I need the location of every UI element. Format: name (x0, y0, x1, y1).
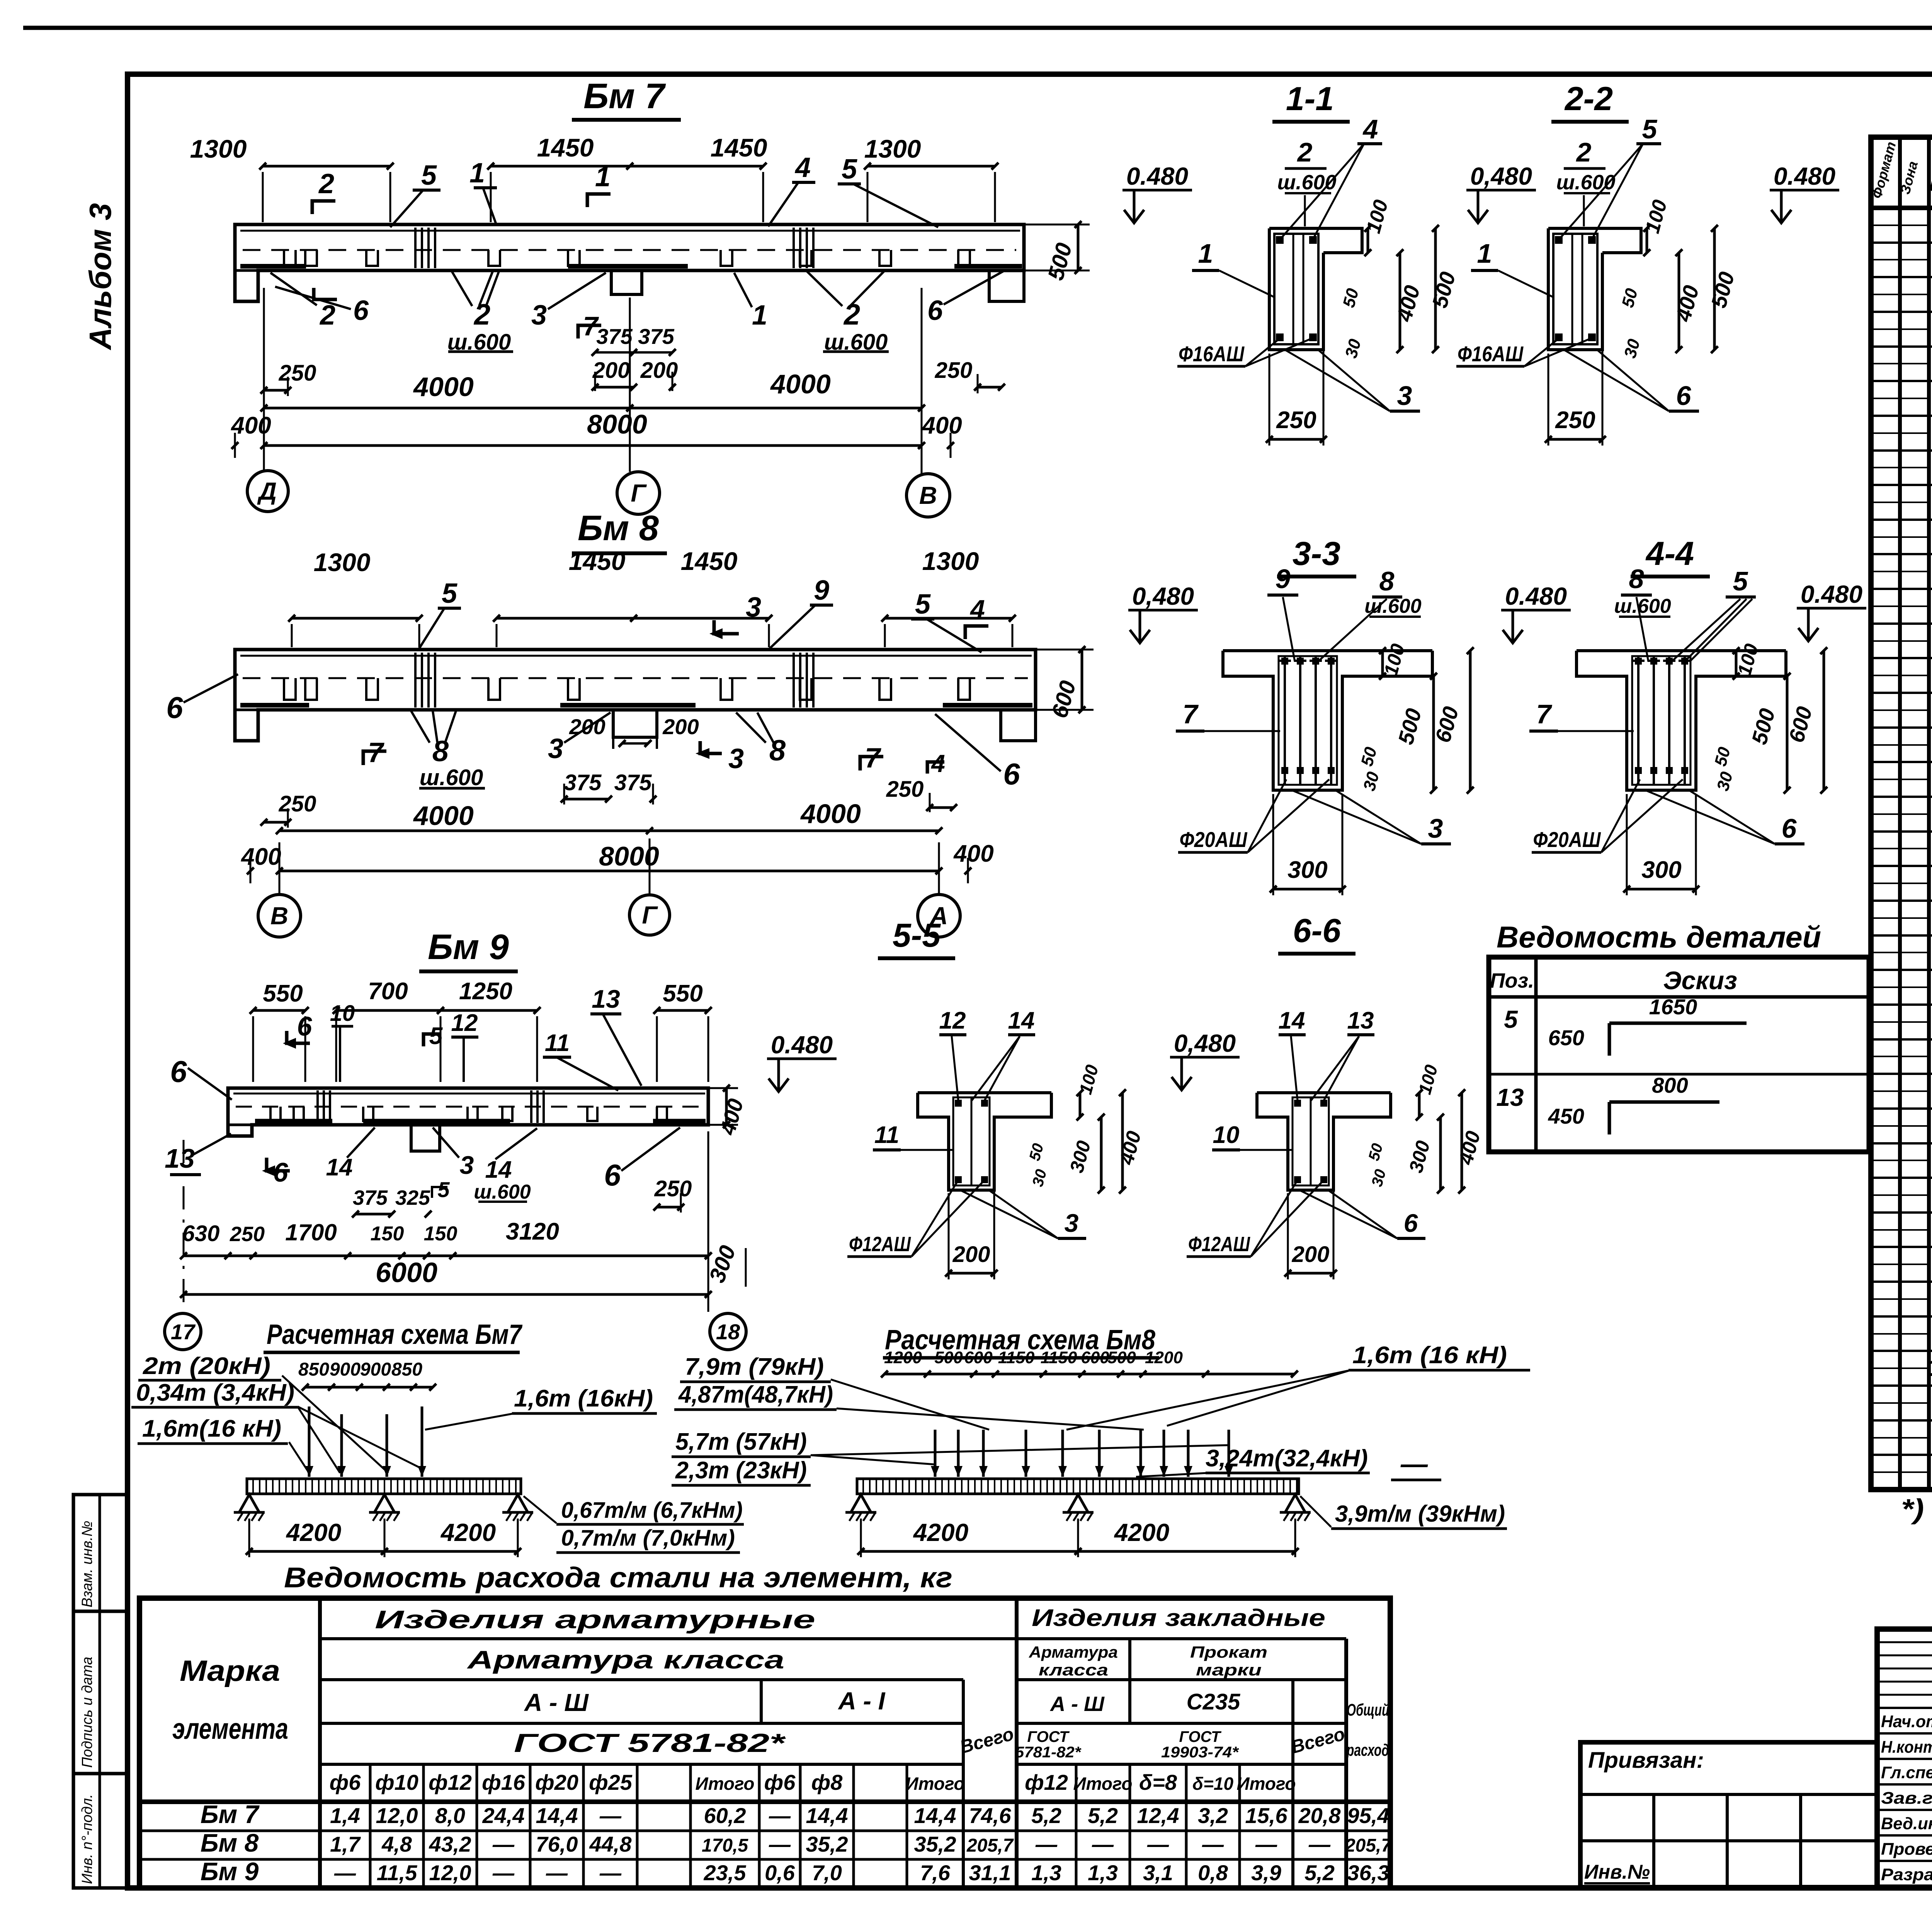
svg-text:—: — (769, 1832, 791, 1856)
svg-text:1,6т(16 кН): 1,6т(16 кН) (142, 1415, 281, 1442)
beam Bm7 mid support drop (611, 270, 642, 294)
svg-text:Бм 7: Бм 7 (201, 1800, 260, 1828)
grid bubble 18 (710, 1313, 746, 1350)
svg-text:3: 3 (746, 592, 761, 623)
svg-text:2-2: 2-2 (1564, 80, 1613, 117)
svg-text:Итого: Итого (696, 1774, 755, 1794)
svg-text:0,6: 0,6 (765, 1861, 795, 1885)
svg-text:11,5: 11,5 (377, 1861, 418, 1885)
svg-text:5,2: 5,2 (1031, 1803, 1061, 1828)
svg-text:1450: 1450 (537, 133, 594, 162)
svg-text:5: 5 (842, 154, 857, 185)
section 1-1 rebar dots (1276, 236, 1284, 244)
beam Bm7 outline (235, 224, 1024, 301)
svg-text:ф8: ф8 (811, 1770, 843, 1794)
svg-text:600: 600 (964, 1348, 993, 1367)
svg-text:Н.контр.: Н.контр. (1881, 1738, 1932, 1757)
svg-text:δ=8: δ=8 (1139, 1770, 1177, 1794)
section 3-3 vertical bars (1284, 657, 1286, 785)
svg-text:ф12: ф12 (1025, 1770, 1068, 1794)
svg-text:3: 3 (1397, 381, 1412, 411)
beam Bm9 cage lines (316, 1090, 319, 1123)
svg-text:13: 13 (165, 1143, 195, 1173)
svg-text:12: 12 (939, 1007, 966, 1034)
svg-text:250: 250 (654, 1176, 692, 1201)
svg-text:6: 6 (1003, 757, 1020, 791)
svg-text:ш.600: ш.600 (1556, 171, 1615, 194)
svg-text:2,3т (23кН): 2,3т (23кН) (675, 1457, 807, 1484)
svg-text:300: 300 (1287, 857, 1327, 883)
svg-text:170,5: 170,5 (702, 1835, 748, 1856)
svg-text:10: 10 (1213, 1122, 1240, 1148)
svg-text:—: — (1202, 1832, 1224, 1856)
svg-text:Бм 9: Бм 9 (201, 1857, 259, 1886)
svg-text:1250: 1250 (459, 978, 512, 1005)
svg-text:0.480: 0.480 (1774, 162, 1835, 190)
svg-text:18: 18 (716, 1320, 740, 1344)
svg-text:ГОСТ: ГОСТ (1027, 1728, 1070, 1745)
svg-text:1700: 1700 (285, 1219, 337, 1245)
beam Bm8 bottom rebar bars (240, 703, 309, 707)
svg-text:Итого: Итого (906, 1774, 965, 1794)
svg-text:11: 11 (545, 1030, 570, 1056)
svg-text:ш.600: ш.600 (1614, 595, 1671, 617)
svg-text:ГОСТ 5781-82*: ГОСТ 5781-82* (514, 1728, 786, 1758)
beam Bm8 outline (235, 650, 1036, 741)
svg-text:7: 7 (1536, 699, 1553, 729)
section 3-3 bottom dim 300 (1273, 888, 1342, 891)
svg-text:Ф20АШ: Ф20АШ (1533, 827, 1601, 852)
svg-text:1: 1 (752, 300, 767, 331)
svg-text:1200: 1200 (884, 1348, 922, 1367)
svg-text:3: 3 (460, 1151, 474, 1179)
svg-text:ф6: ф6 (764, 1770, 796, 1794)
Bm8 right depth dim 600 (1081, 650, 1083, 710)
svg-text:36,3: 36,3 (1347, 1861, 1389, 1885)
svg-text:Подпись и дата: Подпись и дата (79, 1657, 95, 1768)
svg-text:Изделия арматурные: Изделия арматурные (375, 1605, 815, 1634)
svg-text:Общий: Общий (1347, 1701, 1389, 1719)
svg-text:23,5: 23,5 (704, 1861, 747, 1885)
svg-text:12: 12 (451, 1010, 478, 1036)
svg-text:Зав.гр.: Зав.гр. (1881, 1789, 1932, 1808)
svg-text:δ=10: δ=10 (1192, 1774, 1234, 1794)
svg-text:В: В (270, 902, 288, 930)
svg-text:0.480: 0.480 (1505, 582, 1567, 610)
svg-text:3,9т/м (39кНм): 3,9т/м (39кНм) (1335, 1501, 1505, 1527)
svg-text:5: 5 (421, 160, 437, 191)
svg-text:Ф16АШ: Ф16АШ (1458, 342, 1524, 366)
svg-text:2: 2 (1576, 137, 1592, 167)
beam Bm7 right end step (989, 270, 1024, 301)
Bm8 dim line 4000 4000 (279, 830, 939, 832)
steel table structure lines (318, 1598, 322, 1888)
svg-text:150: 150 (424, 1223, 457, 1245)
left stamp column boxes (73, 1495, 128, 1888)
section 4-4 bottom bar dots (1635, 767, 1642, 774)
svg-text:—: — (492, 1861, 515, 1885)
svg-text:700: 700 (368, 978, 408, 1005)
beam Bm7 stirrup marks (284, 250, 296, 266)
svg-text:4200: 4200 (286, 1519, 341, 1546)
svg-text:ш.600: ш.600 (1364, 595, 1422, 617)
svg-text:850: 850 (298, 1359, 329, 1380)
svg-text:400: 400 (921, 412, 962, 439)
section 5-5 bottom dim 200 (949, 1272, 994, 1275)
svg-text:0,480: 0,480 (1470, 162, 1532, 190)
scheme Bm7 leaders left (282, 1376, 388, 1473)
svg-text:2т (20кН): 2т (20кН) (143, 1353, 270, 1379)
svg-text:*) Позиции 5;13 см. ведомость: *) Позиции 5;13 см. ведомость деталей. (1901, 1494, 1932, 1525)
svg-text:В: В (919, 481, 937, 509)
beam Bm8 dashed axis line (243, 677, 1028, 679)
svg-text:4200: 4200 (440, 1519, 496, 1546)
svg-text:200: 200 (952, 1242, 990, 1267)
svg-text:7: 7 (1183, 699, 1199, 729)
svg-text:1: 1 (1198, 238, 1213, 269)
svg-text:—: — (1400, 1449, 1428, 1479)
svg-text:1,3: 1,3 (1088, 1861, 1118, 1885)
svg-text:4200: 4200 (913, 1519, 968, 1546)
svg-text:класса: класса (1039, 1661, 1108, 1679)
grid bubble 17 (165, 1313, 201, 1350)
section 3-3 bottom bar dots (1281, 767, 1288, 774)
svg-text:0,67т/м (6,7кНм): 0,67т/м (6,7кНм) (561, 1498, 743, 1523)
svg-text:3: 3 (728, 743, 744, 774)
top rule (23, 26, 1932, 30)
section 1-1 inner bars (1293, 234, 1294, 344)
section 4-4 bottom dim 300 (1627, 888, 1696, 891)
section 2-2 stirrup (1553, 234, 1597, 344)
svg-text:Ф12АШ: Ф12АШ (849, 1233, 911, 1256)
beam Bm8 top dimension 1450+1450 (497, 617, 769, 620)
steel table frame (139, 1598, 1390, 1888)
beam Bm8 right end step (1001, 710, 1036, 741)
Bm7 dim line 4000 4000 (264, 407, 922, 410)
section 5-5 concrete outline (918, 1091, 1051, 1094)
svg-text:5-5: 5-5 (893, 917, 941, 954)
grid bubble A Bm8 (918, 895, 960, 937)
svg-text:12,0: 12,0 (429, 1861, 471, 1885)
svg-text:6: 6 (170, 1054, 187, 1088)
svg-text:6: 6 (1782, 813, 1797, 844)
section 6-6 stirrup (1293, 1097, 1329, 1185)
svg-text:10: 10 (330, 1001, 355, 1026)
svg-text:марки: марки (1196, 1661, 1262, 1679)
svg-text:400: 400 (953, 840, 993, 867)
svg-text:76,0: 76,0 (536, 1832, 578, 1856)
svg-text:1,6т (16 кН): 1,6т (16 кН) (1352, 1342, 1507, 1369)
svg-text:1200: 1200 (1145, 1348, 1183, 1367)
svg-text:расход: расход (1346, 1741, 1389, 1760)
svg-text:4000: 4000 (770, 369, 831, 399)
detail list table frame (1489, 957, 1869, 1152)
title block signature grid (1877, 1641, 1932, 1643)
svg-text:—: — (1147, 1832, 1169, 1856)
svg-text:А - Ш: А - Ш (524, 1689, 589, 1716)
svg-text:250: 250 (1276, 407, 1316, 434)
svg-text:630: 630 (182, 1221, 220, 1246)
svg-text:1300: 1300 (314, 548, 371, 577)
spec table frame (1871, 137, 1932, 1490)
svg-text:А - I: А - I (838, 1687, 886, 1715)
svg-text:9: 9 (814, 575, 829, 606)
svg-text:Арматура: Арматура (1029, 1643, 1118, 1661)
svg-text:375: 375 (353, 1186, 388, 1209)
svg-text:Ведомость расхода стали: Ведомость расхода стали на элемент, кг (284, 1561, 952, 1594)
svg-text:ш.600: ш.600 (420, 765, 483, 790)
svg-text:35,2: 35,2 (914, 1832, 956, 1856)
svg-text:А - Ш: А - Ш (1049, 1692, 1105, 1716)
Bm9 axis dash lines to bubbles (183, 1140, 185, 1312)
beam Bm8 slab inner line (240, 655, 1032, 657)
svg-text:1,4: 1,4 (330, 1803, 360, 1828)
beam Bm9 bottom rebar bars (255, 1119, 332, 1123)
svg-text:13*: 13* (1927, 1354, 1932, 1381)
svg-text:1,3: 1,3 (1031, 1861, 1061, 1885)
svg-text:ш.600: ш.600 (1277, 171, 1336, 194)
svg-text:850: 850 (391, 1359, 422, 1380)
svg-text:375: 375 (638, 324, 674, 349)
svg-text:14: 14 (1008, 1007, 1035, 1034)
svg-text:Арматура класса: Арматура класса (466, 1645, 784, 1674)
svg-text:1150: 1150 (998, 1348, 1035, 1367)
section 6-6 right dims (1418, 1093, 1421, 1117)
section 5-5 right dims (1079, 1093, 1082, 1117)
scheme Bm7 supports (239, 1495, 259, 1512)
scheme Bm8 bottom dims 4200 4200 (861, 1550, 1295, 1553)
svg-text:3: 3 (548, 733, 563, 764)
svg-text:Поз.: Поз. (1490, 969, 1534, 992)
section 3-3 concrete outline (1223, 649, 1432, 652)
beam Bm7 top dimension 1450+1450 (491, 165, 763, 168)
svg-text:12,0: 12,0 (376, 1803, 418, 1828)
beam Bm7 bottom rebar bars (240, 264, 306, 269)
svg-text:3120: 3120 (506, 1218, 559, 1245)
Bm7 axis extension lines (263, 288, 265, 471)
svg-text:1650: 1650 (1649, 995, 1697, 1019)
svg-text:205,7: 205,7 (1345, 1835, 1392, 1856)
section 1-1 stirrup (1274, 234, 1318, 344)
svg-text:1300: 1300 (922, 547, 979, 575)
svg-text:ГОСТ: ГОСТ (1179, 1728, 1222, 1745)
svg-text:500: 500 (934, 1348, 963, 1367)
beam Bm7 dashed axis line (243, 249, 1016, 251)
section 4-4 right dims (1735, 651, 1738, 676)
beam Bm7 rebar cage group left (414, 228, 417, 268)
svg-text:7,0: 7,0 (812, 1861, 842, 1885)
Bm8 dim line 8000 (279, 870, 939, 872)
svg-text:ф10: ф10 (375, 1770, 418, 1794)
beam Bm9 dashed axis line (236, 1106, 702, 1108)
svg-text:1: 1 (595, 162, 611, 192)
svg-text:5: 5 (915, 589, 931, 620)
svg-text:1300: 1300 (190, 134, 247, 163)
svg-text:Инв.№: Инв.№ (1584, 1861, 1650, 1883)
beam Bm8 top dimension 1300 left (292, 617, 419, 620)
svg-text:Вед.инж: Вед.инж (1881, 1814, 1932, 1833)
svg-text:31,1: 31,1 (969, 1861, 1011, 1885)
svg-text:ф16: ф16 (482, 1770, 526, 1794)
beam Bm9 slab inner line (233, 1093, 705, 1095)
section mark 2 left below (314, 288, 337, 299)
svg-text:6: 6 (1676, 381, 1692, 411)
svg-text:900: 900 (360, 1359, 391, 1380)
svg-text:0.480: 0.480 (771, 1031, 833, 1059)
svg-text:900: 900 (330, 1359, 361, 1380)
svg-text:—: — (1255, 1832, 1277, 1856)
svg-text:1300: 1300 (864, 134, 921, 163)
svg-text:8000: 8000 (587, 409, 647, 439)
svg-text:14: 14 (485, 1156, 512, 1183)
svg-text:95,4: 95,4 (1347, 1803, 1389, 1828)
section 3-3 right dims (1381, 651, 1384, 676)
svg-text:200: 200 (592, 358, 630, 383)
grid bubble V (906, 474, 950, 517)
svg-text:элемента: элемента (172, 1713, 288, 1745)
Bm7 right depth dim 500 (1077, 224, 1080, 270)
Bm9 top dims 550 700 1250 550 (253, 1009, 305, 1012)
svg-text:ф20: ф20 (535, 1770, 578, 1794)
svg-text:Прокат: Прокат (1190, 1643, 1267, 1661)
svg-text:250: 250 (279, 791, 316, 816)
svg-text:375: 375 (614, 770, 652, 795)
svg-text:Инв. n°-подл.: Инв. n°-подл. (79, 1794, 95, 1884)
svg-text:250: 250 (279, 361, 316, 386)
svg-text:5781-82*: 5781-82* (1015, 1744, 1082, 1761)
svg-text:Бм 9: Бм 9 (428, 927, 509, 967)
svg-text:17: 17 (171, 1320, 196, 1344)
svg-text:60,2: 60,2 (704, 1803, 746, 1828)
svg-text:15,6: 15,6 (1245, 1803, 1288, 1828)
svg-text:9: 9 (1276, 564, 1291, 594)
section 5-5 stirrup (953, 1097, 990, 1185)
svg-text:2: 2 (318, 168, 334, 199)
svg-text:250: 250 (230, 1223, 265, 1246)
section 2-2 bottom dim 250 (1548, 438, 1602, 441)
svg-text:Ф20АШ: Ф20АШ (1180, 827, 1248, 852)
svg-text:Изделия закладные: Изделия закладные (1032, 1605, 1325, 1631)
svg-text:5: 5 (429, 1023, 443, 1049)
svg-text:6: 6 (297, 1011, 313, 1041)
svg-text:7,6: 7,6 (920, 1861, 951, 1885)
svg-text:3,1: 3,1 (1143, 1861, 1173, 1885)
svg-text:1-1: 1-1 (1286, 80, 1334, 117)
svg-text:Гл.спец.: Гл.спец. (1881, 1763, 1932, 1782)
svg-text:Альбом 3: Альбом 3 (83, 203, 117, 350)
svg-text:5,2: 5,2 (1304, 1861, 1335, 1885)
svg-text:19903-74*: 19903-74* (1161, 1744, 1240, 1761)
svg-text:500: 500 (1107, 1348, 1136, 1367)
svg-text:1450: 1450 (569, 547, 626, 575)
svg-text:1,7: 1,7 (330, 1832, 361, 1856)
svg-text:Бм 7: Бм 7 (583, 77, 666, 116)
svg-text:375: 375 (596, 324, 633, 349)
svg-text:14: 14 (1279, 1007, 1305, 1034)
svg-text:—: — (599, 1803, 622, 1828)
svg-text:—: — (1308, 1832, 1331, 1856)
svg-text:11: 11 (874, 1122, 899, 1148)
svg-text:Бм 8: Бм 8 (201, 1828, 259, 1857)
svg-text:Провер.: Провер. (1881, 1840, 1932, 1859)
svg-text:24,4: 24,4 (482, 1803, 525, 1828)
svg-text:650: 650 (1548, 1026, 1584, 1050)
svg-text:6: 6 (927, 295, 943, 326)
svg-text:325: 325 (395, 1186, 430, 1209)
beam Bm8 top dimension 1300 right (885, 617, 1012, 620)
beam Bm9 mid drop (411, 1125, 440, 1151)
svg-text:ш.600: ш.600 (474, 1181, 531, 1203)
svg-text:0,480: 0,480 (1132, 582, 1194, 610)
svg-text:—: — (769, 1803, 791, 1828)
svg-text:600: 600 (1081, 1348, 1109, 1367)
section 4-4 concrete outline (1577, 649, 1786, 652)
section 2-2 inner bars (1571, 234, 1573, 344)
grid bubble D (247, 471, 288, 512)
svg-text:ф6: ф6 (330, 1770, 361, 1794)
beam Bm8 stirrup marks (284, 678, 296, 700)
svg-text:—: — (1092, 1832, 1114, 1856)
section 6-6 inner bar (1310, 1097, 1312, 1185)
beam Bm8 mid support drop (613, 710, 657, 737)
svg-text:Взам. инв.№: Взам. инв.№ (79, 1521, 95, 1607)
svg-text:6: 6 (353, 295, 369, 326)
section 2-2 right dims (1646, 228, 1648, 253)
Bm9 bottom dims row1 (184, 1255, 708, 1257)
svg-text:4000: 4000 (413, 801, 474, 831)
svg-text:5,2: 5,2 (1088, 1803, 1118, 1828)
svg-text:Привязан:: Привязан: (1588, 1748, 1704, 1773)
svg-text:Расчетная схема Бм7: Расчетная схема Бм7 (267, 1319, 522, 1350)
svg-text:6: 6 (1404, 1209, 1418, 1237)
svg-text:3: 3 (1428, 813, 1443, 844)
svg-text:200: 200 (1292, 1242, 1330, 1267)
svg-text:1450: 1450 (711, 133, 767, 162)
svg-text:13: 13 (1496, 1083, 1524, 1111)
svg-text:4,8: 4,8 (381, 1832, 412, 1856)
grid bubble G Bm8 (629, 895, 670, 935)
svg-text:5,7т (57кН): 5,7т (57кН) (675, 1429, 807, 1455)
svg-text:2: 2 (1297, 137, 1313, 167)
svg-text:—: — (492, 1832, 515, 1856)
svg-text:3,2: 3,2 (1198, 1803, 1228, 1828)
svg-text:4000: 4000 (800, 799, 861, 829)
section 6-6 rebar dots (1294, 1100, 1301, 1107)
beam Bm7 top dimension 1300 right (867, 165, 995, 168)
svg-text:0.480: 0.480 (1126, 162, 1188, 190)
svg-text:4,87т(48,7кН): 4,87т(48,7кН) (678, 1381, 833, 1408)
section 3-3 stirrup rect (1279, 656, 1337, 785)
beam Bm8 rebar cage group left (414, 653, 417, 707)
svg-text:250: 250 (935, 358, 973, 383)
svg-text:3-3: 3-3 (1293, 535, 1340, 572)
svg-text:300: 300 (1641, 857, 1681, 883)
privyazan box (1580, 1742, 1877, 1887)
Bm7 dim line 8000 (264, 444, 922, 447)
section 1-1 right dims (1367, 228, 1369, 253)
svg-text:Ф16АШ: Ф16АШ (1179, 342, 1245, 366)
section 1-1 concrete outline (1269, 228, 1362, 253)
svg-text:1: 1 (1477, 238, 1492, 269)
svg-text:7,9т (79кН): 7,9т (79кН) (685, 1354, 824, 1380)
svg-text:250: 250 (886, 777, 924, 802)
title block frame (1877, 1629, 1932, 1887)
svg-text:5: 5 (437, 1177, 450, 1202)
beam Bm9 stirrup marks (270, 1107, 281, 1121)
section 1-1 bottom dim 250 (1269, 438, 1323, 441)
svg-text:Марка: Марка (180, 1655, 280, 1687)
svg-text:4: 4 (794, 152, 811, 183)
